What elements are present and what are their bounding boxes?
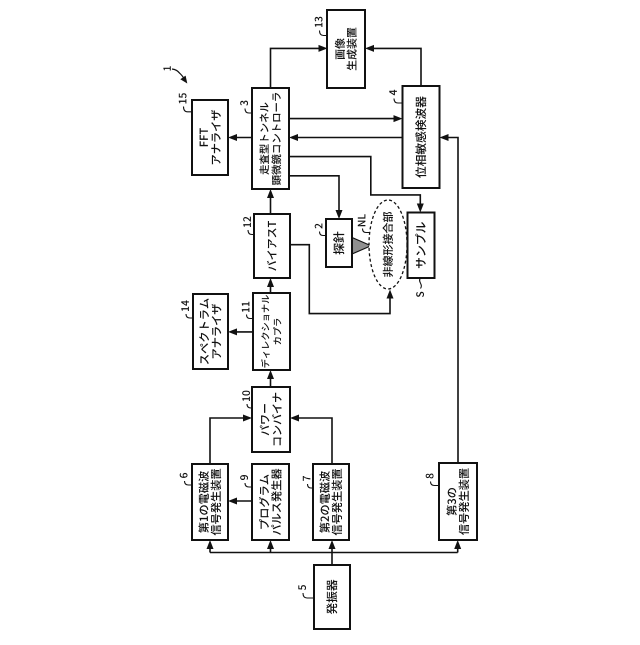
- label NL: [358, 214, 370, 232]
- box 5 oscillator: [314, 565, 350, 629]
- wire phase detector to STM controller: [289, 134, 403, 141]
- wire oscillator to 1st EM generator: [207, 540, 214, 553]
- wire directional coupler to bias T: [267, 278, 274, 293]
- box 8 3rd signal generator: [439, 463, 477, 540]
- wire oscillator to 3rd signal generator: [454, 540, 461, 553]
- box 13 image generation device: [327, 10, 365, 88]
- label 13: [315, 17, 327, 36]
- figure number 1 pointer: [163, 66, 187, 83]
- wire phase detector to image generator: [365, 45, 421, 86]
- wire oscillator to 2nd EM generator: [329, 540, 336, 565]
- label 3: [240, 101, 252, 113]
- label 2: [315, 224, 326, 236]
- label S: [416, 279, 424, 298]
- wire STM controller to image generator: [271, 45, 328, 88]
- label 7: [303, 476, 313, 488]
- box 12 bias T: [254, 214, 290, 278]
- box 10 power combiner: [252, 387, 290, 452]
- label 4: [389, 90, 402, 103]
- box 2 probe: [326, 219, 352, 267]
- wire oscillator to pulse generator: [267, 540, 274, 553]
- label 12: [243, 217, 254, 235]
- box 11 directional coupler: [253, 293, 290, 370]
- wire oscillator distribution line: [210, 552, 458, 554]
- nonlinear junction NL (dashed ellipse): [369, 200, 407, 289]
- wire directional coupler to spectrum analyzer: [228, 328, 253, 335]
- wire 2nd EM generator to power combiner: [290, 415, 332, 465]
- label 6: [180, 473, 192, 485]
- wire STM controller to FFT analyzer: [228, 134, 252, 141]
- box 14 spectrum analyzer: [193, 294, 228, 369]
- wire 3rd signal generator to phase detector: [440, 134, 459, 463]
- wire 1st EM generator to power combiner: [210, 415, 252, 465]
- label 15: [179, 93, 192, 112]
- box S sample: [408, 213, 435, 279]
- wire STM controller to sample: [289, 157, 424, 213]
- wire bias T to STM controller: [267, 189, 274, 214]
- wire STM controller to phase detector: [289, 115, 403, 122]
- label 11: [242, 302, 253, 319]
- box 7 2nd EM wave signal generator: [313, 464, 349, 540]
- box 3 scanning tunneling microscope controller: [252, 88, 289, 189]
- wire power combiner to directional coupler: [267, 370, 274, 387]
- box 4 phase sensitive detector: [403, 86, 440, 188]
- label 5: [298, 585, 314, 598]
- label 14: [181, 300, 193, 318]
- box 15 FFT analyzer: [192, 100, 228, 175]
- label 10: [242, 391, 252, 408]
- wire pulse generator to 1st EM generator: [228, 498, 252, 505]
- box 9 program pulse generator: [252, 464, 289, 540]
- box 6 1st EM wave signal generator: [192, 464, 228, 540]
- wire bias T to nonlinear junction: [290, 245, 394, 314]
- probe tip triangle: [352, 238, 371, 255]
- label 9: [240, 475, 252, 487]
- wire STM controller to probe: [289, 176, 343, 219]
- label 8: [426, 474, 439, 486]
